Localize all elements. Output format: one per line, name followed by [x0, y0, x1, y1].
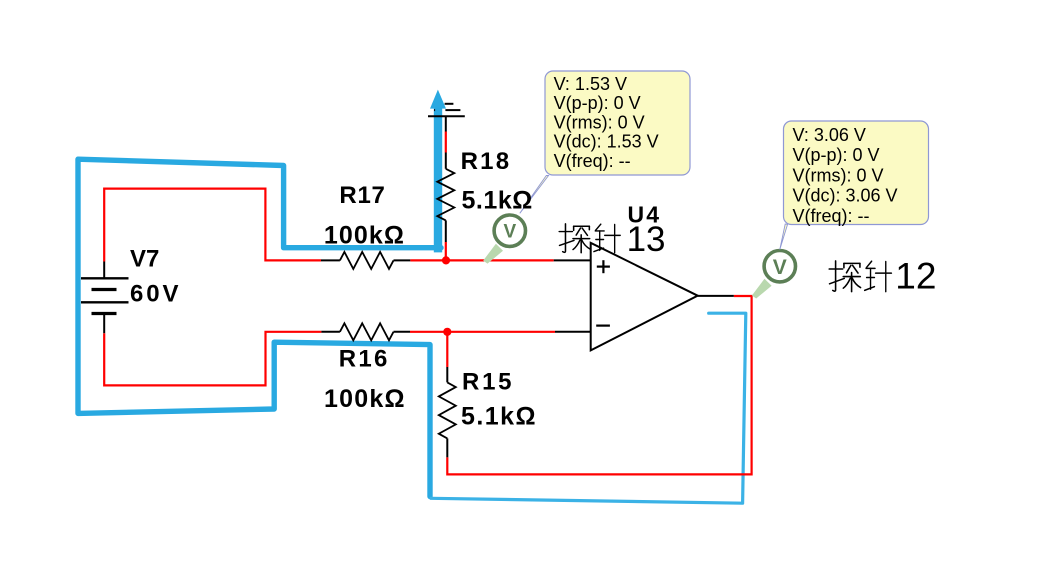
svg-text:V(rms): 0 V: V(rms): 0 V	[793, 165, 884, 185]
svg-text:12: 12	[895, 256, 936, 297]
svg-text:100kΩ: 100kΩ	[324, 221, 404, 249]
svg-text:5.1kΩ: 5.1kΩ	[462, 186, 533, 214]
svg-text:V(dc): 1.53 V: V(dc): 1.53 V	[554, 132, 659, 152]
svg-text:V(freq): --: V(freq): --	[554, 151, 631, 171]
svg-text:13: 13	[627, 220, 666, 259]
svg-text:V: V	[503, 222, 516, 243]
svg-text:V(freq): --: V(freq): --	[793, 206, 870, 226]
svg-text:R18: R18	[461, 148, 510, 175]
svg-text:R15: R15	[462, 369, 512, 396]
svg-text:V(dc): 3.06 V: V(dc): 3.06 V	[793, 186, 898, 206]
svg-text:R17: R17	[339, 182, 385, 209]
svg-text:V: 3.06 V: V: 3.06 V	[793, 125, 866, 145]
svg-text:V(p-p): 0 V: V(p-p): 0 V	[554, 93, 641, 113]
svg-text:V: 1.53 V: V: 1.53 V	[554, 74, 627, 94]
svg-text:5.1kΩ: 5.1kΩ	[461, 403, 536, 431]
svg-text:60V: 60V	[130, 280, 179, 307]
svg-text:V: V	[773, 256, 787, 279]
svg-text:100kΩ: 100kΩ	[324, 385, 405, 413]
svg-text:V7: V7	[130, 245, 159, 272]
svg-text:V(rms): 0 V: V(rms): 0 V	[554, 112, 645, 132]
svg-text:R16: R16	[339, 345, 388, 372]
svg-text:V(p-p): 0 V: V(p-p): 0 V	[793, 145, 880, 165]
